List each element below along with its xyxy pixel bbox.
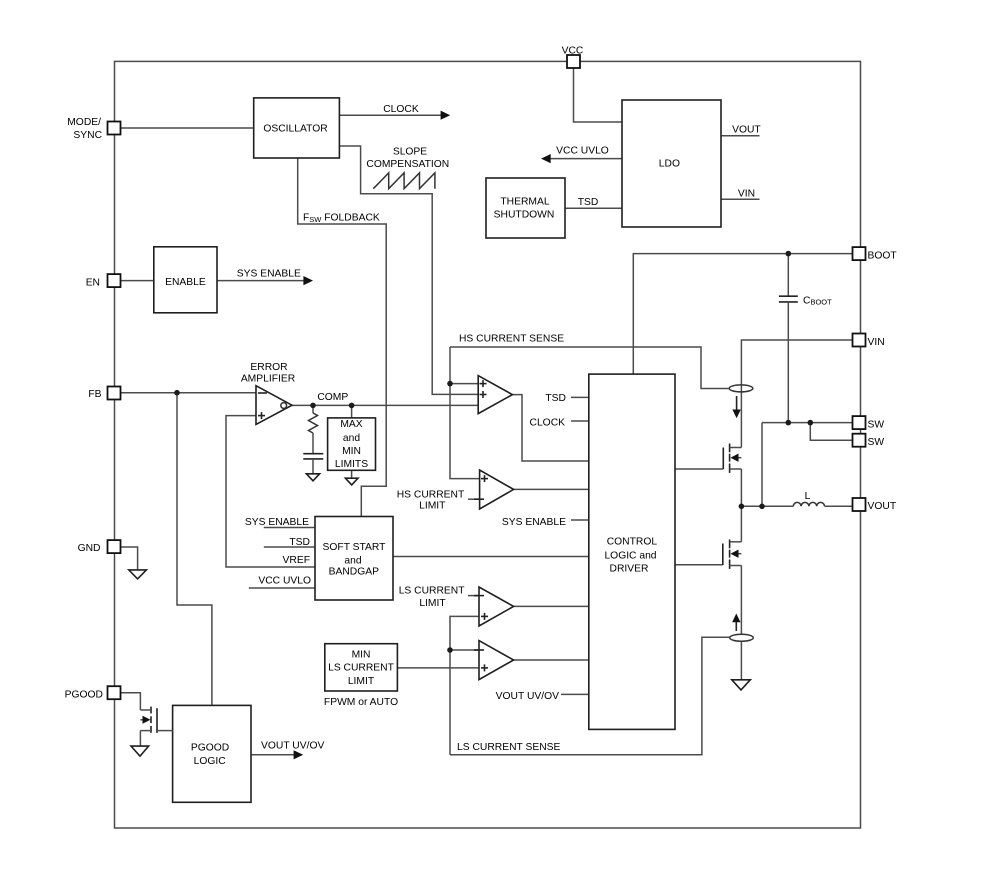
svg-text:SOFT START: SOFT START bbox=[323, 542, 387, 553]
wire SYS ENABLE arrow from enable box bbox=[217, 280, 304, 282]
svg-text:SYS ENABLE: SYS ENABLE bbox=[245, 517, 309, 528]
svg-text:EN: EN bbox=[86, 278, 100, 289]
pin EN bbox=[108, 274, 121, 287]
capacitor C_BOOT bbox=[779, 296, 798, 302]
wire VIN stub of LDO bbox=[721, 198, 760, 200]
svg-text:VOUT UV/OV: VOUT UV/OV bbox=[496, 691, 559, 702]
comparator LS current limit bbox=[479, 587, 514, 626]
svg-text:LS CURRENT: LS CURRENT bbox=[328, 663, 395, 674]
transistor Q1 high-side MOSFET bbox=[723, 444, 741, 473]
svg-text:SHUTDOWN: SHUTDOWN bbox=[494, 210, 555, 221]
node SW junction 1 bbox=[786, 420, 792, 426]
wire soft start output to control logic bbox=[393, 556, 589, 558]
wire HS current sense bbox=[450, 347, 729, 389]
ground below MAX/MIN box bbox=[345, 478, 358, 485]
svg-text:VCC: VCC bbox=[562, 46, 584, 57]
wire VCC pin to LDO bbox=[574, 68, 623, 122]
wire VOUT UV/OV arrow from PGOOD logic bbox=[251, 754, 295, 756]
svg-text:OSCILLATOR: OSCILLATOR bbox=[263, 124, 327, 135]
pin FB bbox=[108, 387, 121, 400]
wire PGOOD FET to ground bbox=[139, 731, 141, 747]
svg-text:VOUT: VOUT bbox=[868, 501, 897, 512]
svg-text:ERROR: ERROR bbox=[250, 362, 287, 373]
svg-text:COMP: COMP bbox=[317, 392, 348, 403]
svg-text:VREF: VREF bbox=[283, 555, 310, 566]
svg-text:FPWM or AUTO: FPWM or AUTO bbox=[324, 697, 398, 708]
svg-text:LS CURRENT SENSE: LS CURRENT SENSE bbox=[457, 742, 561, 753]
svg-text:LIMIT: LIMIT bbox=[419, 598, 446, 609]
transistor Q3 PGOOD open-drain MOSFET bbox=[140, 707, 172, 733]
wire VOUT UV/OV stub to control logic bbox=[561, 693, 589, 695]
enable box bbox=[154, 247, 217, 313]
svg-text:CLOCK: CLOCK bbox=[530, 418, 566, 429]
wire TSD input to soft start bbox=[264, 546, 315, 548]
svg-text:GND: GND bbox=[78, 543, 101, 554]
pin VIN bbox=[853, 334, 866, 347]
ground below LS current sense bbox=[732, 680, 751, 690]
svg-text:MIN: MIN bbox=[352, 650, 371, 661]
comparator HS current limit bbox=[480, 470, 514, 509]
svg-text:THERMAL: THERMAL bbox=[500, 197, 549, 208]
svg-text:MODE/: MODE/ bbox=[67, 117, 101, 128]
wire resistor to capacitor bbox=[312, 433, 314, 453]
node phase junction 2 bbox=[759, 504, 765, 510]
transistor Q2 low-side MOSFET bbox=[723, 540, 742, 569]
wire LS sense branch to MIN comparator - input bbox=[450, 649, 479, 651]
wire Cboot bottom to SW node bbox=[787, 302, 789, 423]
inductor L bbox=[793, 502, 824, 506]
wire VCC UVLO input to soft start bbox=[249, 587, 315, 589]
node FB junction bbox=[174, 390, 180, 396]
svg-text:SYNC: SYNC bbox=[73, 130, 102, 141]
svg-text:and: and bbox=[343, 433, 360, 444]
pin PGOOD bbox=[108, 686, 121, 699]
svg-text:BOOT: BOOT bbox=[868, 251, 898, 262]
svg-text:VOUT: VOUT bbox=[732, 125, 761, 136]
MIN comparator plus sign bbox=[481, 664, 488, 671]
svg-text:DRIVER: DRIVER bbox=[610, 564, 649, 575]
sawtooth slope compensation symbol bbox=[373, 173, 435, 189]
wire HS gate drive bbox=[675, 468, 723, 470]
svg-text:TSD: TSD bbox=[545, 393, 566, 404]
svg-text:CLOCK: CLOCK bbox=[383, 104, 419, 115]
wire VCC UVLO arrow from LDO bbox=[550, 158, 622, 160]
svg-text:VIN: VIN bbox=[868, 337, 885, 348]
wire SW second pin branch bbox=[810, 423, 853, 441]
error amp plus sign bbox=[258, 412, 265, 419]
wire HS sense to PWM comparator + input bbox=[450, 383, 478, 385]
svg-text:FSW FOLDBACK: FSW FOLDBACK bbox=[303, 213, 380, 225]
wire COMP output of error amp bbox=[292, 404, 478, 406]
svg-text:LOGIC and: LOGIC and bbox=[604, 551, 656, 562]
svg-text:TSD: TSD bbox=[289, 537, 310, 548]
arrow HS current direction (down) bbox=[732, 396, 740, 418]
svg-text:LIMIT: LIMIT bbox=[348, 676, 375, 687]
svg-text:PGOOD: PGOOD bbox=[191, 743, 229, 754]
MIN LS current limit box bbox=[325, 644, 398, 691]
svg-text:PGOOD: PGOOD bbox=[65, 690, 103, 701]
node BOOT junction bbox=[786, 251, 792, 257]
arrowhead VCC UVLO bbox=[541, 154, 551, 163]
control logic and driver box bbox=[589, 374, 675, 729]
arrowhead SYS ENABLE bbox=[303, 276, 313, 285]
wire TSD stub to control logic bbox=[571, 396, 589, 398]
pin VCC bbox=[567, 55, 580, 68]
wire VREF vertical to error amp + input bbox=[226, 416, 315, 567]
svg-text:BANDGAP: BANDGAP bbox=[329, 567, 379, 578]
LS current limit minus sign bbox=[474, 595, 484, 597]
wire HS sense branch down to comparators bbox=[449, 347, 451, 384]
wire inductor to VOUT pin bbox=[825, 505, 854, 507]
svg-text:VCC UVLO: VCC UVLO bbox=[556, 146, 609, 157]
HS current limit plus sign bbox=[481, 475, 488, 482]
wire GND pin to ground symbol bbox=[121, 547, 138, 570]
wire BOOT pin to control logic bbox=[633, 254, 853, 375]
chip outer border bbox=[115, 61, 861, 828]
svg-text:LS CURRENT: LS CURRENT bbox=[399, 586, 466, 597]
svg-text:VOUT UV/OV: VOUT UV/OV bbox=[261, 741, 324, 752]
svg-text:L: L bbox=[805, 491, 811, 502]
wire COMP to compensation resistor bbox=[312, 405, 314, 413]
arrowhead CLOCK bbox=[441, 111, 451, 120]
svg-text:and: and bbox=[344, 556, 361, 567]
svg-text:LDO: LDO bbox=[659, 159, 680, 170]
wire HS current limit minus stub bbox=[468, 498, 480, 500]
resistor compensation bbox=[309, 413, 318, 433]
node SW junction 2 bbox=[808, 420, 814, 426]
pin SW bbox=[853, 416, 866, 429]
node COMP junction 2 bbox=[349, 403, 355, 409]
wire LS current limit minus stub bbox=[468, 595, 479, 597]
current sense element HS (ellipse) bbox=[729, 385, 753, 392]
svg-text:SYS ENABLE: SYS ENABLE bbox=[237, 268, 301, 279]
svg-text:VIN: VIN bbox=[738, 189, 755, 200]
svg-text:COMPENSATION: COMPENSATION bbox=[366, 159, 449, 170]
wire EN to enable box bbox=[121, 280, 154, 282]
svg-text:LIMITS: LIMITS bbox=[335, 459, 368, 470]
svg-text:MIN: MIN bbox=[342, 446, 361, 457]
capacitor compensation bbox=[303, 454, 323, 459]
soft start and bandgap box bbox=[315, 517, 393, 601]
HS current limit minus sign bbox=[474, 498, 484, 500]
wire capacitor to ground bbox=[312, 459, 314, 474]
current sense element LS (ellipse) bbox=[730, 634, 754, 641]
wire SYS ENABLE input to soft start bbox=[264, 527, 315, 529]
svg-text:LIMIT: LIMIT bbox=[419, 501, 446, 512]
ground below compensation cap bbox=[306, 474, 319, 481]
wire MODE/SYNC to oscillator bbox=[121, 127, 254, 129]
wire LS current limit output to control logic bbox=[514, 605, 589, 607]
wire LS current sense path bbox=[450, 637, 730, 754]
svg-text:VCC UVLO: VCC UVLO bbox=[258, 576, 311, 587]
PWM comparator plus sign 1 bbox=[480, 380, 487, 387]
wire PWM comparator output to control logic bbox=[512, 395, 588, 461]
svg-text:CBOOT: CBOOT bbox=[803, 296, 832, 307]
wire CLOCK stub to control logic bbox=[571, 420, 589, 422]
comparator PWM bbox=[478, 376, 512, 414]
wire SW node vertical HS source to LS drain bbox=[740, 469, 742, 542]
wire VOUT stub of LDO bbox=[721, 135, 760, 137]
wire FB pin to error amp - input bbox=[121, 392, 256, 394]
arrowhead VOUT UV/OV bbox=[294, 750, 304, 759]
LDO box bbox=[622, 100, 721, 227]
wire LS FET source to current sense bbox=[740, 566, 742, 635]
svg-text:ENABLE: ENABLE bbox=[165, 277, 206, 288]
svg-text:FB: FB bbox=[88, 389, 101, 400]
comparator MIN LS current limit bbox=[479, 641, 514, 680]
svg-text:AMPLIFIER: AMPLIFIER bbox=[241, 374, 295, 385]
arrow LS current direction (up) bbox=[732, 614, 740, 632]
node COMP junction 1 bbox=[310, 403, 316, 409]
pin SW2 bbox=[853, 434, 866, 447]
wire MIN comparator output to control logic bbox=[514, 659, 589, 661]
svg-text:HS CURRENT SENSE: HS CURRENT SENSE bbox=[459, 334, 564, 345]
ground below GND pin bbox=[129, 570, 147, 579]
pin GND bbox=[108, 540, 121, 553]
wire MIN LS box to MIN comparator + input bbox=[397, 667, 479, 669]
wire slope compensation path bbox=[339, 146, 478, 394]
wire SYS ENABLE stub to control logic bbox=[571, 519, 589, 521]
wire FB junction down to PGOOD logic bbox=[177, 393, 212, 706]
pin BOOT bbox=[853, 247, 866, 260]
wire Fsw foldback path bbox=[298, 158, 387, 517]
node HS sense junction bbox=[447, 381, 453, 387]
svg-text:SW: SW bbox=[868, 419, 885, 430]
svg-text:HS CURRENT: HS CURRENT bbox=[397, 490, 465, 501]
wire LS sense to LS current limit + input bbox=[450, 616, 479, 754]
wire MAX/MIN box to ground bbox=[351, 470, 353, 478]
svg-text:SW: SW bbox=[868, 437, 885, 448]
thermal shutdown box bbox=[486, 178, 565, 238]
PWM comparator plus sign 2 bbox=[480, 391, 487, 398]
op-amp U1 error amplifier bbox=[256, 386, 292, 425]
svg-text:TSD: TSD bbox=[578, 197, 599, 208]
error amp output bubble bbox=[281, 403, 287, 409]
svg-text:MAX: MAX bbox=[340, 419, 362, 430]
MAX and MIN limits box bbox=[328, 418, 376, 470]
wire inductor junction bbox=[741, 505, 793, 507]
wire CLOCK output of oscillator bbox=[339, 114, 441, 116]
PGOOD logic box bbox=[173, 705, 251, 802]
pin MODE/SYNC bbox=[108, 122, 121, 135]
svg-text:LOGIC: LOGIC bbox=[194, 756, 227, 767]
wire LS sense to ground bbox=[740, 641, 742, 680]
wire COMP to MAX/MIN limits box bbox=[351, 405, 353, 418]
ground below PGOOD FET bbox=[131, 746, 149, 756]
error amp minus sign bbox=[258, 392, 267, 394]
MIN comparator minus sign bbox=[474, 649, 484, 651]
wire TSD thermal shutdown to LDO bbox=[565, 207, 622, 209]
pin VOUT bbox=[853, 498, 866, 511]
wire LS gate drive bbox=[675, 564, 723, 566]
wire PGOOD pin to pull-down FET bbox=[121, 693, 140, 710]
svg-text:CONTROL: CONTROL bbox=[607, 537, 658, 548]
wire SW node horizontal to SW pin bbox=[762, 422, 853, 424]
wire VIN pin to HS FET drain bbox=[741, 340, 853, 448]
wire BOOT to Cboot top bbox=[787, 254, 789, 296]
svg-text:SYS ENABLE: SYS ENABLE bbox=[502, 517, 566, 528]
node LS sense junction bbox=[447, 647, 453, 653]
node phase junction 1 bbox=[739, 504, 745, 510]
wire SW node down to inductor junction bbox=[761, 423, 763, 507]
LS current limit plus sign bbox=[481, 613, 488, 620]
wire HS current limit output to control logic bbox=[514, 488, 589, 490]
oscillator box bbox=[254, 98, 340, 158]
svg-text:SLOPE: SLOPE bbox=[393, 147, 427, 158]
wire HS sense down to HS current limit + input bbox=[450, 384, 480, 479]
